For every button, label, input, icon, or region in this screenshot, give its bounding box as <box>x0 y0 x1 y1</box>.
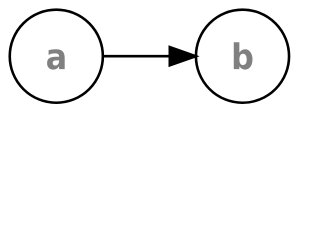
edge a to b wire <box>104 55 170 58</box>
arrowhead <box>170 47 196 65</box>
node a label <box>47 49 65 69</box>
node b label <box>234 42 253 69</box>
node b circle <box>196 10 289 103</box>
node a circle <box>10 10 103 103</box>
